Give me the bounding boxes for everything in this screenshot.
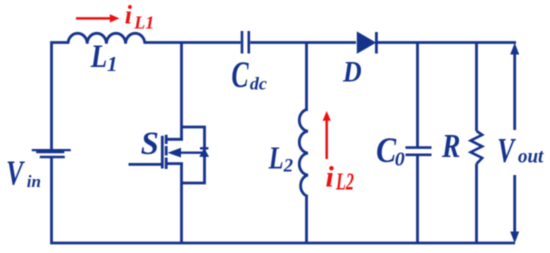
transistor S channel dashes	[165, 135, 168, 169]
wire: MOSFET source vertical down to bottom bus	[180, 163, 183, 243]
label D	[342, 56, 362, 89]
voltage arrow Vout (double-headed)	[513, 52, 516, 234]
svg-text:in: in	[27, 172, 41, 191]
svg-text:0: 0	[395, 149, 405, 171]
svg-text:C: C	[376, 130, 397, 170]
svg-text:2: 2	[283, 155, 294, 176]
wire: MOSFET drain horizontal connection	[166, 138, 183, 141]
label iL1	[125, 0, 154, 32]
svg-text:L: L	[268, 142, 284, 176]
svg-text:L2: L2	[335, 170, 354, 196]
current arrow iL2	[323, 111, 331, 159]
label R	[441, 127, 460, 164]
svg-text:D: D	[342, 56, 362, 89]
capacitor C0	[406, 148, 432, 155]
wire: MOSFET drain vertical from top bus	[180, 43, 183, 141]
wire: top bus from L1 to Cdc left plate	[145, 41, 241, 44]
svg-text:V: V	[6, 154, 25, 193]
inductor L2	[299, 109, 308, 196]
wire: C0 branch from top bus down to top plate	[416, 43, 419, 148]
svg-text:V: V	[497, 131, 516, 170]
svg-text:L1: L1	[133, 12, 154, 32]
label Cdc	[231, 53, 249, 95]
battery Vin: short bottom plate	[40, 156, 65, 159]
svg-text:C: C	[231, 53, 249, 95]
body diode of transistor S	[200, 147, 208, 149]
label C0	[376, 130, 397, 170]
wire: MOSFET source horizontal connection	[166, 162, 183, 165]
svg-text:S: S	[141, 126, 159, 162]
transistor S gate bar	[161, 136, 164, 169]
current arrow iL1	[76, 14, 120, 22]
svg-text:L: L	[90, 37, 107, 74]
wire: R branch from resistor down to bottom bus	[475, 164, 478, 243]
wire: L2 branch from top bus down to coil	[305, 43, 308, 109]
svg-text:1: 1	[107, 52, 118, 76]
wire: left branch from Vin negative plate down, and bottom bus to the right end	[52, 157, 516, 243]
svg-text:out: out	[518, 146, 544, 168]
svg-text:i: i	[326, 161, 335, 194]
battery Vin: long top plate	[32, 149, 71, 151]
label Vout	[497, 131, 516, 170]
wire: C0 branch from bottom plate down to bottom bus	[416, 156, 419, 244]
wire: left branch from top-left corner down to Vin positive plate	[52, 43, 69, 151]
voltage arrow Vout upper arrowhead	[510, 43, 519, 55]
diode D	[357, 32, 375, 53]
battery Vin: thick middle of top plate	[36, 151, 64, 154]
white gap for Vout label	[496, 130, 546, 175]
label L2	[268, 142, 284, 176]
label L1	[90, 37, 107, 74]
resistor R	[471, 131, 483, 164]
voltage arrow Vout lower arrowhead	[510, 232, 519, 244]
label Vin	[6, 154, 25, 193]
svg-text:dc: dc	[250, 74, 267, 94]
inductor L1	[68, 33, 145, 44]
wire: body diode loop of S	[182, 127, 205, 183]
wire: R branch from top bus down to resistor	[475, 43, 478, 132]
label S	[141, 126, 159, 162]
wire: MOSFET body connection with arrow into channel	[180, 151, 205, 153]
wire: top bus from Cdc to diode anode	[250, 41, 356, 44]
capacitor Cdc	[242, 31, 249, 54]
label iL2	[326, 161, 354, 196]
wire: top bus from diode cathode to top-right end	[378, 41, 517, 44]
wire: gate lead of S	[129, 163, 164, 166]
svg-text:i: i	[125, 0, 133, 29]
wire: L2 branch from coil down to bottom bus	[305, 197, 308, 244]
svg-text:R: R	[441, 127, 460, 164]
